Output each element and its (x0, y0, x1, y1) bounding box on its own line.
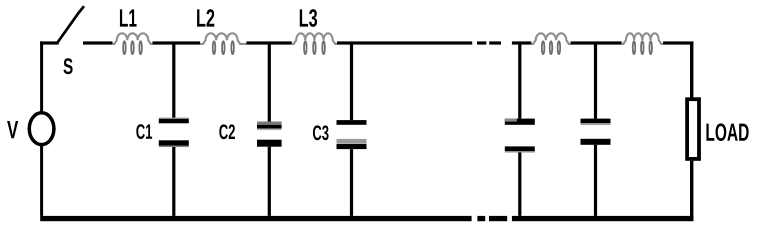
wire top rail seg7 (663, 41, 693, 44)
source V (7, 113, 54, 145)
wire top rail dashes (477, 41, 501, 44)
switch S (58, 6, 85, 74)
wire bottom rail seg1 (40, 216, 471, 221)
wire top rail seg6 (571, 41, 622, 44)
wire top rail seg4 (337, 41, 472, 44)
capacitor section4 (505, 44, 535, 216)
capacitor C2 (219, 44, 281, 216)
resistor LOAD (687, 99, 749, 159)
wire right vertical lower (690, 161, 693, 217)
inductor L1 (112, 9, 152, 54)
wire top-left stub (40, 41, 59, 44)
capacitor C3 (313, 44, 367, 216)
inductor section5 (621, 33, 663, 54)
inductor section4 (531, 33, 571, 54)
wire left vertical upper (40, 41, 43, 112)
wire right vertical upper (690, 44, 693, 98)
wire left vertical lower (40, 146, 43, 216)
capacitor C1 (136, 44, 188, 216)
inductor L2 (197, 9, 247, 54)
wire top rail seg1 (83, 41, 113, 44)
inductor L3 (292, 9, 337, 54)
wire bottom rail seg2 (512, 216, 694, 221)
wire top rail seg2 (153, 41, 201, 44)
wire bottom rail dashes (477, 216, 507, 221)
wire top rail seg3 (246, 41, 291, 44)
capacitor section5 (581, 44, 611, 216)
wire top rail seg5 (512, 41, 532, 44)
